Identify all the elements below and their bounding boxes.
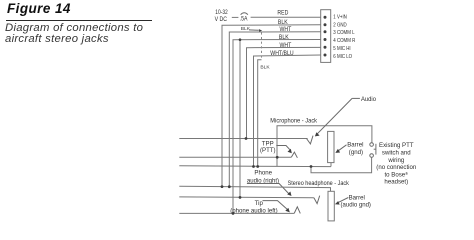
junction on W4 <box>239 38 242 41</box>
label TPP (PTT) with leader <box>260 141 292 154</box>
pin labels <box>333 14 355 60</box>
wire W3 WHT pin3 <box>229 32 320 187</box>
node: shield to L3 <box>256 165 259 168</box>
svg-text:headset): headset) <box>384 179 408 186</box>
label Phone audio (right) with leader <box>247 169 292 196</box>
terminal circle upper <box>370 143 374 147</box>
svg-text:4 COMM R: 4 COMM R <box>333 38 355 45</box>
wire L2 PTT feed <box>179 156 291 158</box>
stereo tip spring contact <box>294 207 300 214</box>
node: W3 to L4 <box>228 185 231 188</box>
pin dots <box>324 16 327 57</box>
svg-text:to Bose®: to Bose® <box>384 171 408 179</box>
wire: dashed shield drop <box>261 32 263 59</box>
svg-text:1 V+IN: 1 V+IN <box>333 14 347 21</box>
label Existing PTT switch and wiring <box>376 142 416 186</box>
existing PTT dashed bracket <box>374 144 376 155</box>
mic jack box outline <box>277 126 372 167</box>
wire: branch from W4 down to phone-right line <box>239 40 241 198</box>
svg-text:5 MIC HI: 5 MIC HI <box>333 46 350 53</box>
mic tip contact V <box>307 136 314 144</box>
label Barrel (audio gnd) with leader <box>335 194 371 208</box>
wire W2 BLK pin2 <box>222 25 321 187</box>
svg-text:Microphone - Jack: Microphone - Jack <box>270 119 317 125</box>
stereo ring contact V <box>314 196 320 204</box>
svg-text:RED: RED <box>277 10 288 16</box>
mic PTT spring contact <box>291 152 297 158</box>
wire W1 RED fuse to pin1 <box>251 16 321 18</box>
svg-text:Existing PTT: Existing PTT <box>379 142 414 149</box>
svg-text:2 GND: 2 GND <box>333 22 347 29</box>
svg-text:BLK: BLK <box>241 26 251 32</box>
svg-text:Phone: Phone <box>254 169 272 176</box>
svg-text:V DC: V DC <box>215 17 227 23</box>
wire L4 stereo barrel feed <box>179 186 330 191</box>
label Audio with leader <box>315 97 377 137</box>
svg-text:6 MIC LO: 6 MIC LO <box>333 53 352 60</box>
wire W4 BLK pin4 (to stereo tip line) <box>233 40 321 214</box>
label Barrel (gnd) with leader <box>335 141 363 156</box>
supply label 10-32 V DC <box>215 10 228 23</box>
node: W6 to L3 <box>252 165 255 168</box>
node: W5 to L1 <box>245 137 248 140</box>
node: box edge on L2 <box>276 156 279 159</box>
wire L3 mic ground rail <box>179 165 331 168</box>
connector U1 <box>321 10 331 63</box>
svg-text:.5A: .5A <box>240 16 248 22</box>
svg-text:3 COMM L: 3 COMM L <box>333 30 354 37</box>
svg-text:BLK: BLK <box>260 65 270 71</box>
svg-text:WHT: WHT <box>280 42 292 48</box>
title rule <box>6 20 152 21</box>
wire W5 WHT pin5 <box>247 47 321 138</box>
wire: supply dash to fuse <box>232 16 239 18</box>
svg-text:(no connection: (no connection <box>376 164 416 171</box>
svg-text:Tip: Tip <box>255 200 264 207</box>
svg-text:(audio gnd): (audio gnd) <box>341 202 371 208</box>
svg-text:switch and: switch and <box>382 150 411 157</box>
wire: barrel stub to rail <box>330 163 332 167</box>
mic barrel B1 <box>328 131 334 162</box>
stereo barrel B2 <box>328 191 334 221</box>
wire L5 phone right <box>179 196 314 199</box>
svg-text:(gnd): (gnd) <box>349 149 363 156</box>
svg-text:Barrel: Barrel <box>349 194 365 201</box>
svg-text:10-32: 10-32 <box>215 10 227 17</box>
wire W6 WHT/BLU pin6 <box>254 55 321 167</box>
node: loop to rail <box>310 165 313 168</box>
wire: shield jog <box>258 60 262 167</box>
node: W2 to L4 <box>221 185 224 188</box>
wire L1 mic tip feed <box>179 138 307 140</box>
label Tip (phone audio left) with leader <box>230 200 290 215</box>
wire L6 phone left / tip <box>179 212 294 214</box>
svg-text:BLK: BLK <box>278 20 288 26</box>
label BLK (shield, with arrow to dashed wire) <box>241 26 262 32</box>
title: Figure 14 <box>7 1 71 16</box>
node: W4 to L6 <box>232 212 235 215</box>
svg-text:(PTT): (PTT) <box>260 147 276 154</box>
svg-text:wiring: wiring <box>387 157 404 164</box>
svg-text:BLK: BLK <box>279 35 289 41</box>
svg-text:Stereo headphone - Jack: Stereo headphone - Jack <box>288 181 349 187</box>
svg-text:WHT/BLU: WHT/BLU <box>270 51 293 57</box>
svg-text:Barrel: Barrel <box>347 141 363 148</box>
subtitle <box>5 23 143 46</box>
wire: lower terminal loop to rail <box>311 157 372 172</box>
fuse .5A <box>240 13 248 23</box>
svg-text:Audio: Audio <box>361 97 377 103</box>
svg-text:WHT: WHT <box>280 27 292 33</box>
terminal circle lower <box>370 154 374 158</box>
node: W4 branch to L5 <box>239 196 242 199</box>
